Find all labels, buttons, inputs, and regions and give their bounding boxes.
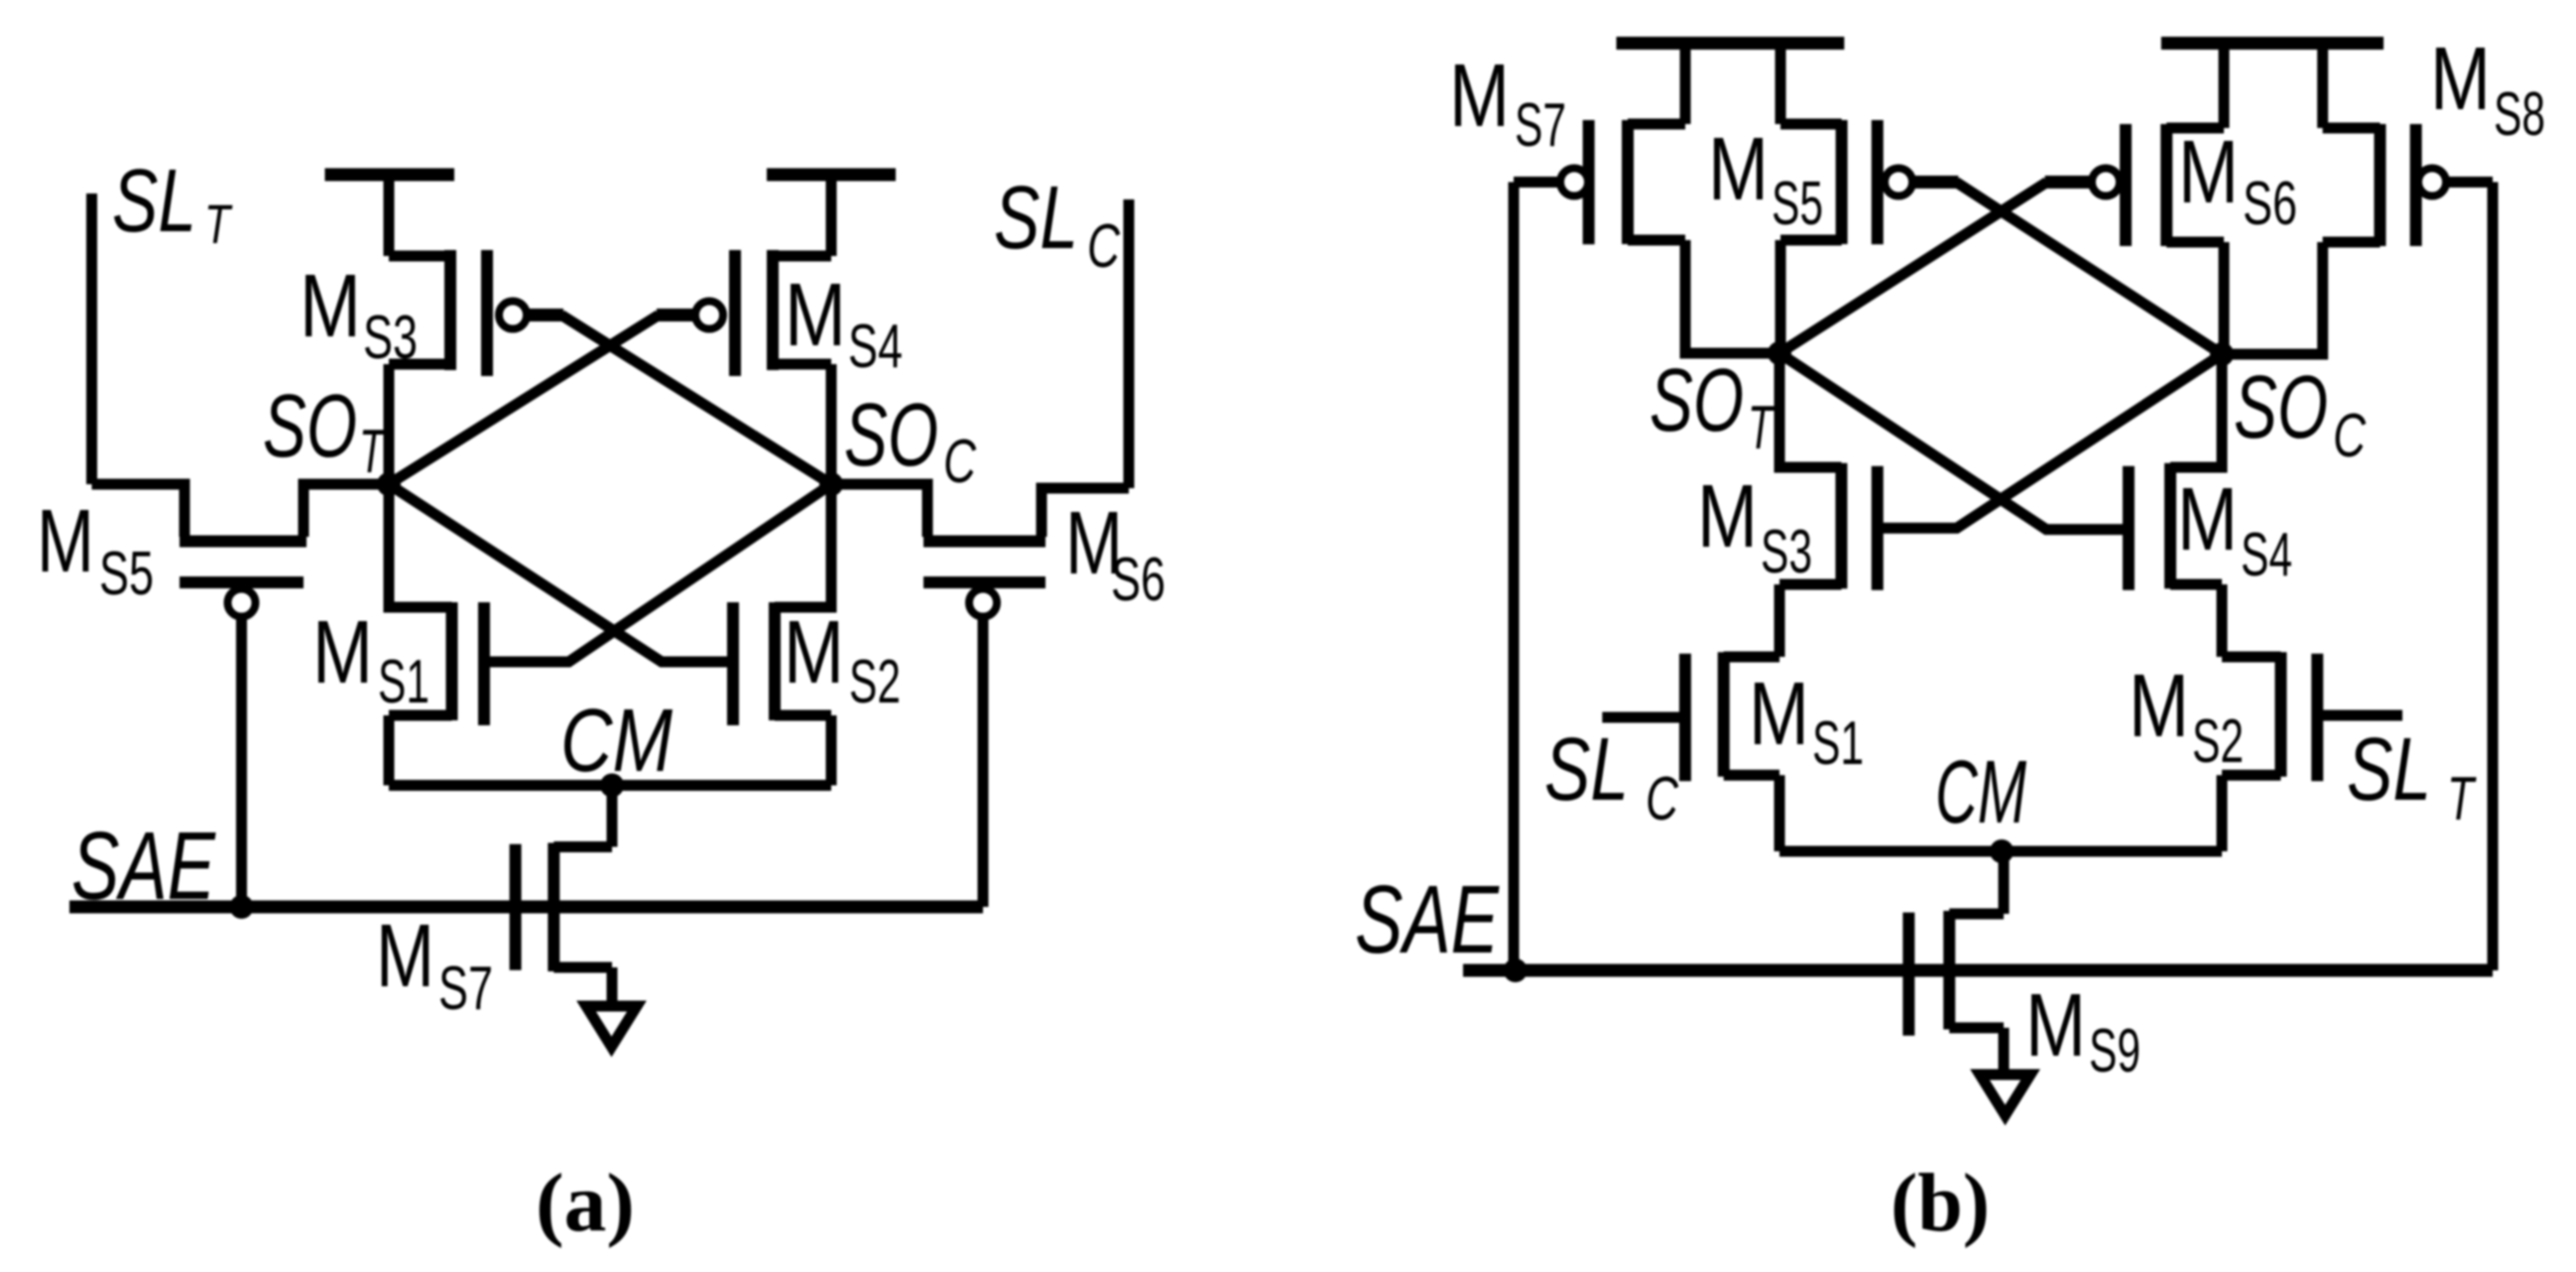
svg-text:T: T: [2447, 765, 2477, 833]
svg-text:SL: SL: [2347, 720, 2431, 820]
svg-text:M: M: [2430, 30, 2491, 129]
node SOC (circuit a): [819, 472, 843, 496]
wire MS3 gate to node SOC (cross-coupling diagonal, circuit b): [1878, 354, 2222, 528]
svg-text:S7: S7: [438, 954, 493, 1023]
svg-text:SO: SO: [263, 377, 357, 476]
wire MS4 source to MS2 drain (circuit b): [2217, 584, 2228, 657]
caption (b): [1891, 1157, 1990, 1249]
transistor MS3 (PMOS, circuit a): [389, 250, 527, 376]
svg-text:SAE: SAE: [71, 812, 216, 920]
label node CM (circuit b): [1935, 743, 2026, 842]
svg-text:M: M: [2177, 470, 2238, 570]
wire MS1 source to CM bus: [384, 715, 395, 786]
svg-text:M: M: [1708, 120, 1769, 219]
ground symbol (circuit a): [586, 1006, 637, 1047]
wire CM to MS9 drain (circuit b): [1999, 851, 2010, 914]
wire MS3 drain to node SOT: [384, 364, 395, 484]
svg-text:S3: S3: [363, 304, 418, 372]
node CM (circuit a): [600, 774, 624, 798]
svg-text:SO: SO: [1650, 351, 1744, 450]
label node CM (circuit a): [560, 692, 673, 791]
wire MS1 gate stub SLC (circuit b): [1602, 712, 1685, 723]
node SOT (circuit a): [377, 472, 401, 496]
wire MS6 gate to SAE line: [978, 617, 989, 908]
label MS5 (circuit b): [1708, 120, 1823, 238]
svg-text:S3: S3: [1761, 518, 1812, 586]
label SAE (circuit a): [71, 812, 216, 920]
wire MS3 gate to node SOC (cross-coupling diagonal): [527, 316, 831, 485]
svg-text:M: M: [312, 603, 373, 702]
label node SOC (circuit b): [2234, 358, 2367, 470]
wire MS6 drain to node SOC (circuit b): [2219, 242, 2230, 354]
svg-text:M: M: [785, 266, 846, 365]
caption (a): [536, 1157, 635, 1249]
wire VDD to MS4 drain: [826, 175, 837, 256]
wire MS2 gate stub SLT (circuit b): [2317, 710, 2402, 721]
transistor MS5 (PMOS, circuit b): [1780, 120, 1912, 244]
wire SLT vertical (circuit a): [86, 193, 97, 484]
svg-text:C: C: [1646, 765, 1679, 833]
wire MS8 source to node SOC (circuit b): [2222, 242, 2323, 354]
svg-text:M: M: [37, 492, 94, 591]
power bar VDD (above MS4, circuit a): [767, 169, 896, 182]
wire MS5 gate to SAE line: [236, 617, 247, 908]
svg-text:S6: S6: [2243, 170, 2297, 238]
wire VDD to MS8 drain: [2317, 44, 2328, 129]
svg-text:S5: S5: [1772, 170, 1823, 238]
svg-text:T: T: [359, 418, 387, 486]
label SLT (circuit a): [112, 152, 233, 255]
power bar VDD (above MS3, circuit a): [325, 169, 455, 182]
label MS4 (circuit a): [785, 266, 903, 381]
node SOT (circuit b): [1768, 341, 1791, 365]
transistor MS4 (NMOS, circuit b): [2129, 354, 2222, 590]
svg-text:SL: SL: [994, 169, 1078, 268]
label MS5 (circuit a): [37, 492, 154, 608]
wire MS5 drain to node SOT (circuit b): [1776, 240, 1786, 353]
svg-text:S5: S5: [99, 540, 154, 608]
transistor MS1 (NMOS, circuit a): [389, 484, 484, 725]
svg-text:S2: S2: [849, 648, 901, 716]
svg-text:(b): (b): [1891, 1157, 1990, 1249]
label MS6 (circuit b): [2178, 123, 2297, 238]
wire VDD to MS7 drain: [1680, 44, 1691, 125]
label MS3 (circuit a): [300, 257, 418, 372]
wire MS3 source to MS1 drain (circuit b): [1775, 584, 1785, 657]
transistor MS6 (PMOS pass gate, circuit a): [831, 484, 1129, 617]
wire MS4 gate to node SOT (cross-coupling diagonal, circuit b): [1779, 353, 2129, 530]
wire SAE line (circuit a): [69, 901, 983, 914]
svg-text:S6: S6: [1111, 546, 1165, 614]
svg-text:CM: CM: [1935, 743, 2026, 842]
label SLC (circuit a): [994, 169, 1121, 281]
svg-text:S9: S9: [2089, 1017, 2141, 1085]
transistor MS8 (PMOS, circuit b): [2323, 124, 2446, 246]
svg-text:M: M: [300, 257, 361, 356]
label MS1 (circuit b): [1749, 665, 1864, 778]
svg-text:SAE: SAE: [1355, 865, 1500, 973]
node SOC (circuit b): [2210, 342, 2234, 366]
power bar VDD (above MS7/MS5, circuit b): [1617, 37, 1845, 50]
wire MS5 gate to node SOC (cross-coupling diagonal, circuit b): [1912, 183, 2222, 355]
svg-text:M: M: [2129, 657, 2189, 756]
wire VDD to MS3 drain: [384, 175, 395, 256]
transistor MS2 (NMOS pass gate, circuit b): [2222, 652, 2317, 781]
svg-text:M: M: [784, 603, 844, 702]
svg-text:(a): (a): [536, 1157, 635, 1249]
wire SAE line (circuit b): [1463, 964, 2493, 977]
svg-text:M: M: [1749, 665, 1809, 764]
label SLC (circuit b): [1544, 720, 1679, 833]
svg-text:S7: S7: [1515, 91, 1566, 160]
label MS3 (circuit b): [1697, 467, 1812, 586]
label MS7 (circuit b): [1449, 47, 1566, 160]
wire MS8 gate corner: [2446, 177, 2493, 188]
label MS1 (circuit a): [312, 603, 429, 716]
wire MS8 gate down to SAE (tall right wire, circuit b): [2488, 183, 2499, 971]
wire MS2 source to CM bus (circuit b): [2217, 775, 2228, 851]
wire CM bus (circuit b): [1779, 846, 2222, 857]
svg-text:M: M: [2178, 123, 2239, 222]
svg-text:S8: S8: [2494, 80, 2545, 149]
svg-text:S1: S1: [1812, 709, 1864, 778]
junction SAE/MS7 gate (circuit b): [1504, 958, 1528, 982]
transistor MS5 (PMOS pass gate, circuit a): [92, 484, 390, 617]
label MS4 (circuit b): [2177, 470, 2292, 589]
label MS6 (circuit a): [1065, 494, 1165, 614]
transistor MS7 (NMOS tail, circuit a): [516, 843, 612, 972]
svg-text:SL: SL: [112, 152, 196, 251]
svg-text:M: M: [1697, 467, 1758, 567]
label node SOC (circuit a): [844, 386, 977, 496]
wire MS4 drain to node SOC: [826, 364, 837, 484]
transistor MS4 (PMOS, circuit a): [695, 250, 831, 376]
svg-text:S1: S1: [378, 648, 429, 716]
wire CM bus (circuit a): [389, 780, 831, 791]
wire MS7 gate down to SAE (tall left wire, circuit b): [1509, 183, 1520, 971]
svg-text:T: T: [204, 192, 233, 255]
svg-text:S4: S4: [2241, 521, 2292, 589]
wire MS7 source to ground: [607, 967, 618, 1004]
wire MS9 source to ground (circuit b): [1999, 1028, 2010, 1074]
wire MS6 gate to node SOT (cross-coupling diagonal, circuit b): [1779, 183, 2092, 354]
wire SLC vertical (circuit a): [1124, 199, 1135, 488]
svg-text:SO: SO: [844, 386, 938, 485]
junction SAE/MS5 gate (circuit a): [230, 895, 254, 919]
label MS2 (circuit b): [2129, 657, 2244, 776]
transistor MS1 (NMOS pass gate, circuit b): [1685, 652, 1779, 781]
wire MS7 source to node SOT (circuit b): [1685, 240, 1779, 353]
wire CM to MS7 drain: [607, 786, 618, 847]
transistor MS9 (NMOS tail, circuit b): [1908, 911, 2004, 1036]
transistor MS3 (NMOS, circuit b): [1779, 353, 1878, 590]
transistor MS6 (PMOS, circuit b): [2092, 124, 2224, 246]
svg-text:SO: SO: [2234, 358, 2328, 457]
transistor MS7 (PMOS, circuit b): [1560, 120, 1685, 244]
wire MS2 gate to node SOT (cross-coupling diagonal): [389, 484, 733, 662]
svg-text:M: M: [376, 907, 434, 1006]
wire MS4 gate to node SOT (cross-coupling diagonal): [389, 316, 695, 485]
svg-text:C: C: [2333, 402, 2367, 470]
svg-text:T: T: [1748, 394, 1776, 462]
svg-text:S4: S4: [848, 313, 903, 381]
label MS9 (circuit b): [2025, 976, 2141, 1085]
svg-text:M: M: [2025, 976, 2086, 1076]
label MS2 (circuit a): [784, 603, 901, 716]
label MS7 (circuit a): [376, 907, 493, 1023]
wire MS7 gate corner: [1514, 177, 1560, 188]
svg-text:S2: S2: [2192, 707, 2244, 776]
wire MS2 source to CM bus: [826, 715, 837, 786]
svg-text:C: C: [943, 428, 977, 496]
label MS8 (circuit b): [2430, 30, 2545, 149]
wire MS1 gate to node SOC (cross-coupling diagonal): [484, 484, 831, 662]
svg-text:CM: CM: [560, 692, 673, 791]
power bar VDD (above MS6/MS8, circuit b): [2161, 37, 2384, 50]
label SAE (circuit b): [1355, 865, 1500, 973]
wire VDD to MS5 source: [1776, 44, 1786, 125]
wire MS1 source to CM bus (circuit b): [1775, 775, 1785, 851]
label SLT (circuit b): [2347, 720, 2477, 833]
svg-text:M: M: [1449, 47, 1510, 146]
label node SOT (circuit b): [1650, 351, 1776, 462]
node CM (circuit b): [1990, 839, 2014, 863]
label node SOT (circuit a): [263, 377, 387, 486]
ground symbol (circuit b): [1980, 1075, 2030, 1115]
svg-text:SL: SL: [1544, 720, 1629, 820]
wire VDD to MS6 source: [2219, 44, 2230, 129]
transistor MS2 (NMOS, circuit a): [733, 484, 831, 725]
svg-text:C: C: [1087, 212, 1121, 281]
